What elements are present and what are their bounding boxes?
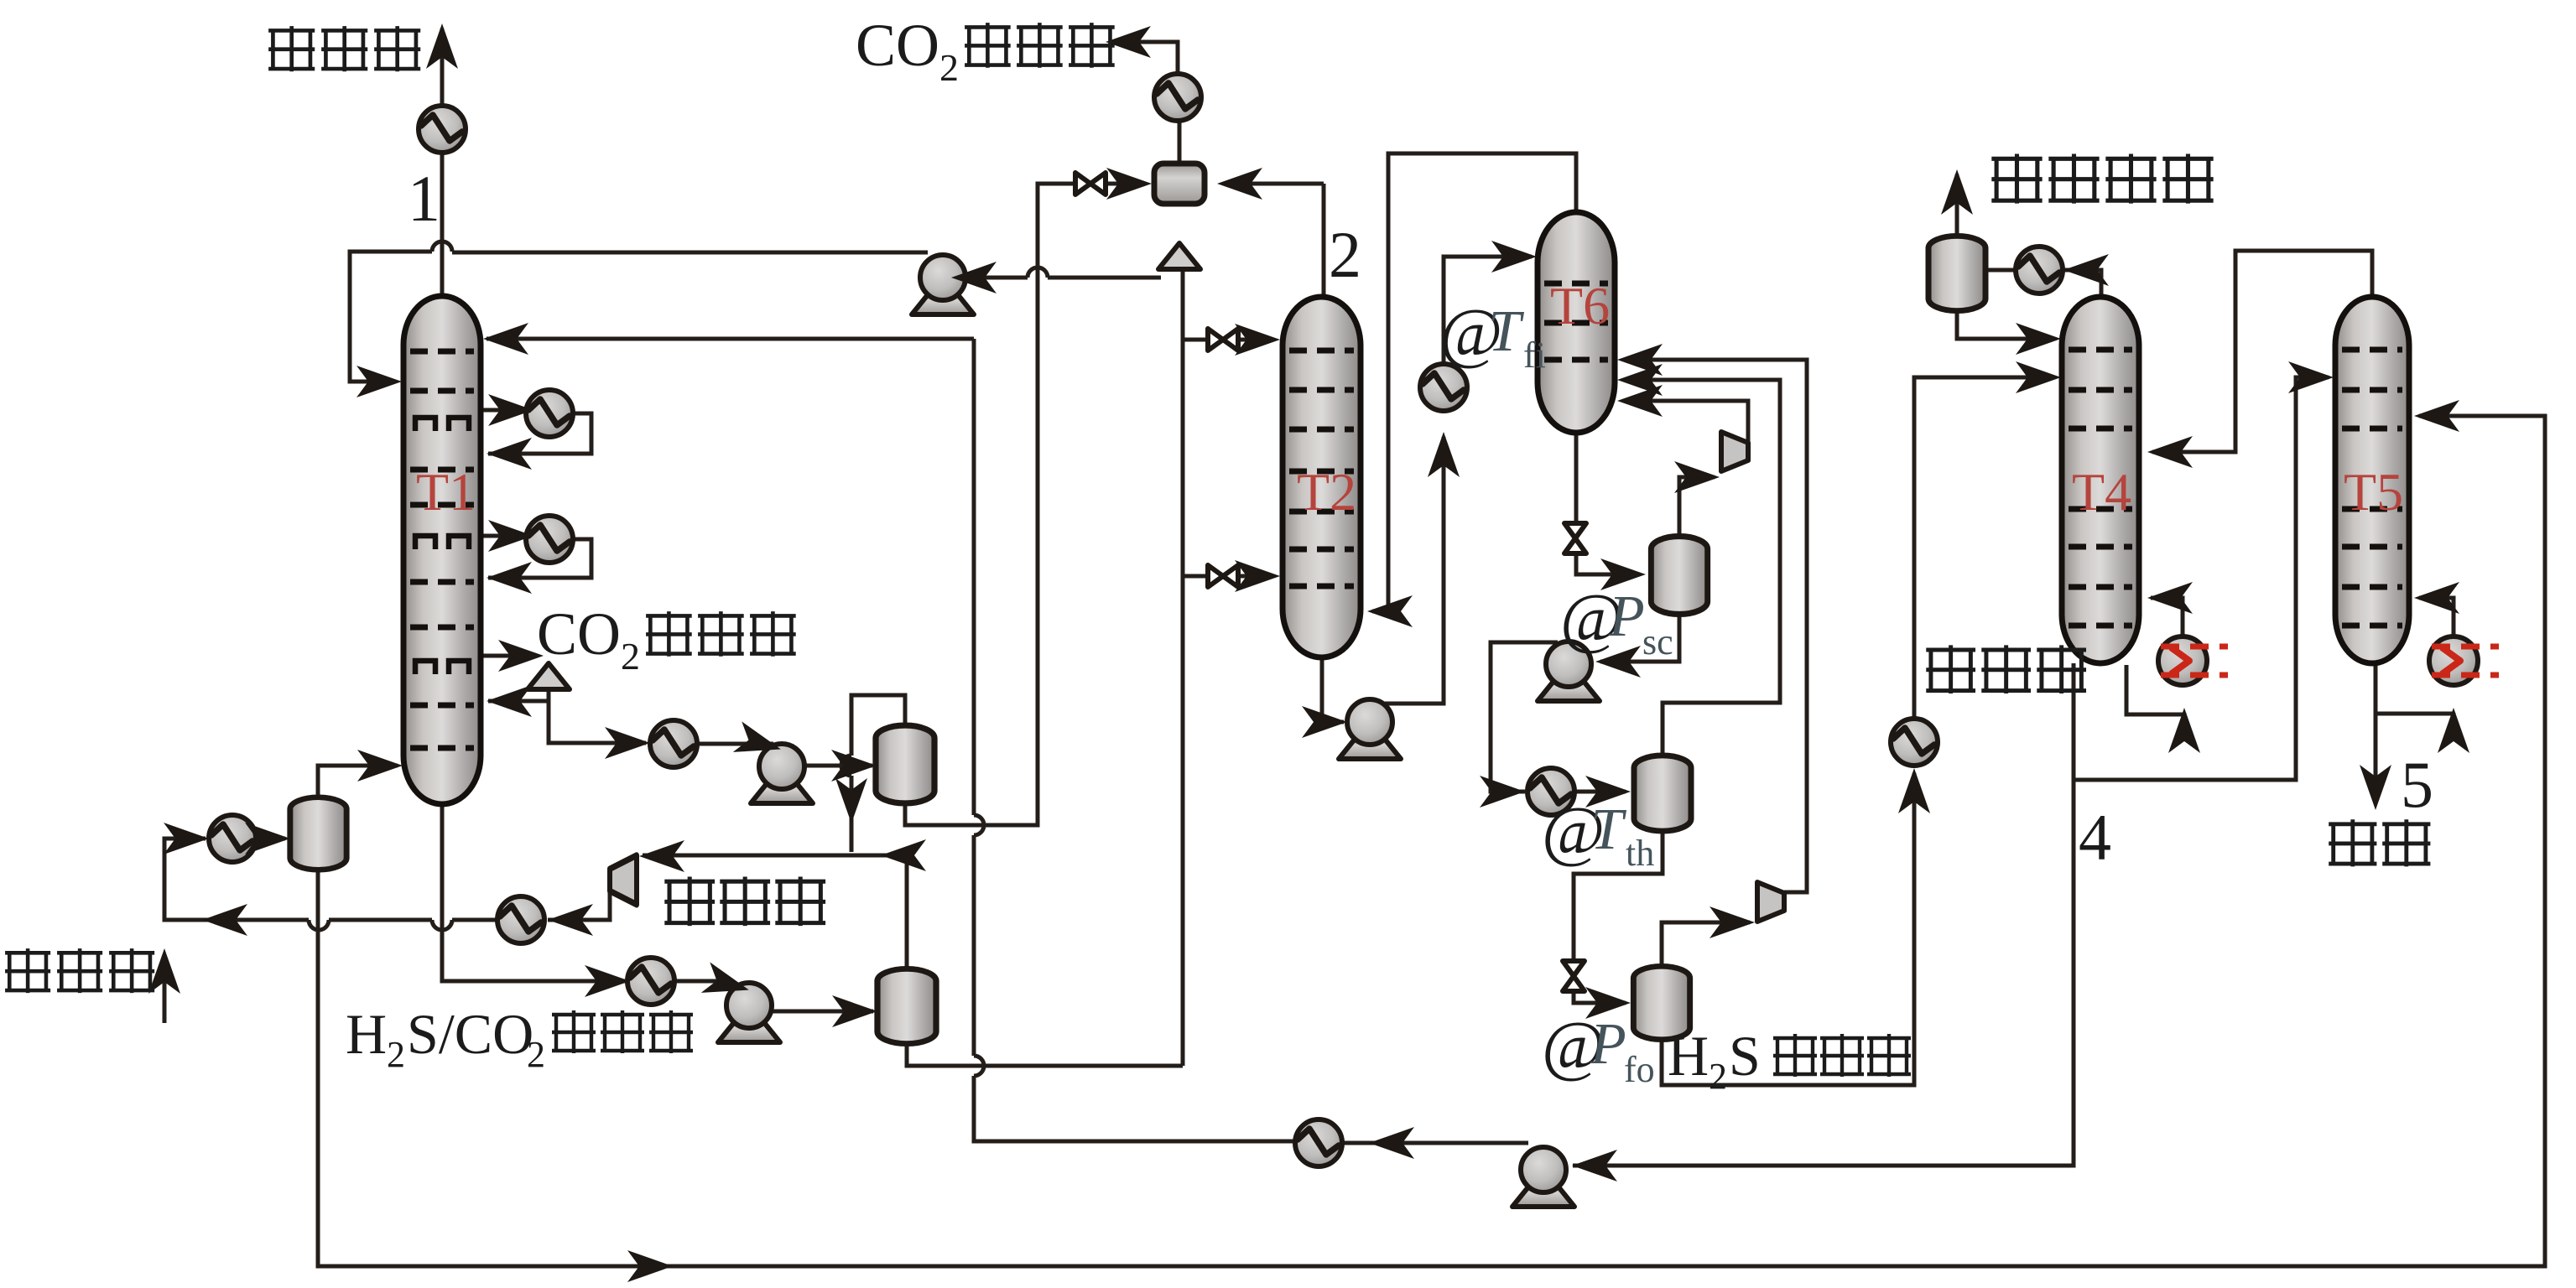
svg-text:T4: T4	[2072, 462, 2131, 522]
wire T1 bottoms to H2S/CO2 HX	[442, 804, 725, 981]
wire T5 overhead to T4 return	[2152, 251, 2372, 452]
column T2	[1283, 297, 1361, 657]
arrow purified gas up	[426, 23, 458, 69]
arrow into T1 left feed	[356, 366, 402, 397]
label Claus gas	[1991, 153, 2213, 203]
wire T4 reboiler loop	[2126, 598, 2184, 714]
reboiler T5 (red)	[2429, 636, 2499, 685]
compressor K3 Pfo vapor	[1757, 882, 1784, 922]
wire T6 overhead to T2 lower return	[1372, 153, 1576, 611]
pump P3	[718, 983, 780, 1042]
arrow down on recycle drop leg	[835, 778, 867, 823]
wire Claus drum assembly	[1957, 174, 2101, 339]
svg-text:P: P	[1608, 584, 1645, 649]
valve V2 T2 upper feed	[1208, 329, 1238, 351]
wire pump P2 discharge loop to T1 left feed	[350, 252, 928, 382]
arrow stream4 into T5	[2288, 361, 2334, 393]
wire drum D2 bottoms riser to T2 feed valves	[907, 270, 1273, 1066]
svg-text:T: T	[1488, 299, 1525, 364]
wire Psc drum bottoms to pump P5	[1600, 615, 1679, 662]
arrow letdown return into T1	[487, 685, 532, 717]
arrow into T6 right bottom	[1617, 385, 1663, 417]
svg-text:4: 4	[2079, 801, 2111, 874]
arrow Claus liquid into T4	[2016, 323, 2061, 355]
arrow bottom header right	[627, 1250, 673, 1282]
wire pump P1 discharge into drum D1	[805, 764, 872, 768]
arrow into pump P4	[1302, 706, 1347, 738]
arrow reboiler return into T5	[2414, 582, 2459, 614]
arrow into compressor K1	[639, 840, 684, 872]
arrow into E12	[2063, 254, 2109, 286]
arrow into Tth drum	[1585, 776, 1631, 808]
svg-text:2: 2	[527, 1034, 545, 1075]
label raw gas	[5, 948, 154, 993]
column T5	[2335, 297, 2409, 663]
label waste water	[2329, 819, 2430, 866]
wire T1 side cooler loop upper	[481, 410, 591, 454]
label CO2 product gas	[856, 12, 1115, 89]
svg-text:2: 2	[1329, 218, 1361, 291]
arrow wash feed into T1 right	[483, 323, 528, 355]
arrow left on recycle header	[881, 839, 926, 871]
label recycle gas	[664, 876, 825, 926]
pump P4 T2 bottoms	[1339, 699, 1401, 759]
label CO2 rich methanol	[537, 600, 796, 678]
heat exchanger E13 bottom interchanger	[1295, 1119, 1342, 1166]
arrow D0 vapor into T1	[357, 750, 403, 782]
pump P6 bottom right	[1512, 1147, 1574, 1207]
wire compressor K3 discharge riser to T6	[1624, 360, 1807, 892]
arrow from T2 into product drum	[1217, 168, 1262, 200]
wire T2 bottoms to pump P4	[1322, 657, 1344, 722]
arrow CO2 product gas	[1106, 26, 1151, 58]
arrow reboiler return into T4	[2147, 582, 2193, 614]
arrow waste water down	[2360, 765, 2391, 810]
valve V3 T2 lower feed	[1208, 565, 1238, 587]
wire pump P3 discharge into drum D2	[773, 1010, 873, 1014]
wire raw gas feed	[163, 956, 167, 1023]
arrow into E8	[585, 965, 630, 997]
arrow into T6 right middle	[1617, 364, 1663, 396]
drum D2 H2S flash drum	[877, 969, 936, 1043]
arrow into pump P5	[1595, 646, 1641, 678]
arrow valve V3 into T2	[1235, 560, 1280, 592]
wire compressor K1 discharge to main return line	[164, 839, 610, 920]
arrow into pump P6	[1572, 1150, 1617, 1182]
wire drum D1 bottoms up to product valve	[905, 184, 1146, 825]
heat exchanger E3 T1 intercooler lower	[526, 516, 573, 563]
label @Tfi	[1439, 294, 1546, 376]
svg-text:H: H	[1668, 1024, 1709, 1088]
wire wash methanol feed into T1 top right	[487, 337, 974, 341]
valve V1 product line	[1075, 173, 1106, 195]
heat exchanger E10 before Tth drum	[1527, 768, 1574, 815]
wire drum D0 bottoms to long bottom header and T5 right feed riser	[318, 416, 2545, 1266]
svg-text:2: 2	[1709, 1056, 1727, 1097]
heat exchanger E12 Claus gas cooler	[2016, 247, 2063, 293]
svg-text:S: S	[1729, 1024, 1761, 1088]
label @Psc	[1560, 579, 1673, 662]
pump P5 Psc bottoms	[1538, 641, 1600, 701]
wire T4 bottoms down to pump P6 suction	[1573, 663, 2074, 1166]
arrow up into E9	[1428, 432, 1460, 477]
column T4	[2062, 297, 2139, 663]
wire T6 bottoms through valve into Psc drum	[1576, 433, 1640, 574]
heat exchanger E11 lean methanol cooler	[1891, 719, 1938, 766]
compressor K2 Psc vapor	[1721, 432, 1748, 471]
svg-text:S/CO: S/CO	[407, 1002, 533, 1066]
valve V4 T6 bottoms letdown	[1564, 523, 1586, 553]
pump P1	[751, 744, 813, 803]
arrow into E10	[1480, 776, 1525, 808]
wire Pfo drum overhead to compressor K3	[1662, 922, 1750, 967]
wire HX to pump P1	[697, 742, 773, 746]
svg-text:T: T	[1590, 797, 1627, 862]
triangle letdown B product	[1158, 243, 1200, 269]
drum D0 feed separator	[290, 797, 346, 870]
pump P2	[912, 255, 974, 314]
drum Pfo flash	[1633, 966, 1689, 1039]
svg-text:5: 5	[2401, 748, 2433, 821]
drum Psc flash	[1651, 537, 1707, 615]
svg-text:2: 2	[387, 1034, 405, 1075]
arrow into drum D0	[245, 823, 290, 854]
svg-text:H: H	[346, 1002, 387, 1066]
arrow into compressor K3	[1710, 906, 1755, 938]
drum D1 CO2 flash drum	[876, 725, 934, 803]
wire T5 reboiler loop and waste water	[2376, 598, 2454, 803]
svg-text:CO: CO	[537, 600, 621, 667]
compressor K1 recycle gas	[610, 855, 637, 905]
arrow into E6	[548, 904, 593, 936]
arrow up into T4 reboiler	[2168, 708, 2200, 753]
arrow riser into T5 right	[2414, 400, 2459, 432]
svg-text:P: P	[1590, 1012, 1626, 1077]
svg-text:th: th	[1626, 833, 1654, 874]
arrow T1 to cooler E2	[488, 394, 533, 426]
arrow CO2 rich outlet	[498, 640, 544, 672]
drum Tth flash	[1634, 756, 1691, 831]
label H2S rich methanol	[1668, 1024, 1911, 1097]
heat exchanger E1 purified gas cooler	[419, 106, 466, 153]
wire drum D1 overhead loop down to recycle-gas header	[643, 695, 907, 969]
heat exchanger E8 H2S/CO2 rich exchanger	[627, 958, 674, 1005]
arrow valve V2 into T2	[1235, 324, 1280, 356]
arrow T5 overhead into T4	[2147, 436, 2193, 468]
wire Tth drum bottoms through valve into Pfo drum	[1574, 831, 1663, 1003]
arrow valve V1 into product drum	[1106, 168, 1152, 200]
arrow up into T5 reboiler	[2438, 708, 2469, 753]
arrow main return left	[202, 904, 247, 936]
arrow T1 to cooler E3	[488, 520, 533, 552]
wire Psc drum overhead to compressor K2	[1679, 477, 1715, 537]
wire CO2-rich methanol outlet and letdown	[481, 656, 646, 743]
svg-text:CO: CO	[856, 12, 939, 79]
arrow into compressor K2	[1674, 461, 1720, 493]
svg-text:2: 2	[939, 46, 959, 89]
label @Tth	[1542, 792, 1654, 874]
arrow up into E11	[1898, 768, 1930, 813]
svg-text:sc: sc	[1642, 621, 1673, 662]
arrow E3 return into T1	[487, 562, 532, 594]
drum Claus gas separator	[1928, 236, 1985, 310]
arrow into E13	[1369, 1127, 1414, 1159]
heat exchanger E6 recycle line exchanger	[497, 896, 544, 943]
wire Tth drum overhead riser to T6	[1624, 380, 1780, 756]
svg-text:2: 2	[621, 635, 640, 678]
label H2S/CO2 rich methanol	[346, 1002, 693, 1075]
drum product accumulator	[1154, 164, 1205, 204]
arrow return into T2 right	[1367, 595, 1413, 627]
arrow into E7	[164, 823, 209, 854]
wire long riser x1161 with hops, to bottom HX line	[974, 339, 1528, 1143]
svg-text:T2: T2	[1297, 462, 1356, 522]
reboiler T4 (red)	[2158, 636, 2228, 685]
heat exchanger E4 CO2 product cooler	[1154, 74, 1201, 121]
arrow into Psc drum	[1600, 558, 1646, 590]
heat exchanger E2 T1 intercooler upper	[526, 390, 573, 437]
column T6	[1538, 212, 1615, 433]
wire drum D0 overhead into T1 bottom	[318, 766, 398, 797]
wire letdown triangle to pump P2 suction with hop	[956, 267, 1161, 278]
heat exchanger E9 Tfi exchanger	[1420, 364, 1467, 411]
wire CO2 product line	[1110, 42, 1179, 164]
valve V5 Tth bottoms letdown	[1563, 961, 1585, 991]
triangle letdown A at T1	[528, 663, 570, 689]
arrow into Pfo drum	[1585, 987, 1631, 1019]
wire compressor K2 discharge to T6	[1624, 401, 1748, 442]
svg-text:fi: fi	[1523, 335, 1546, 376]
wire hop at x527 on y300	[432, 241, 452, 252]
wire T1 side cooler loop lower	[481, 536, 591, 578]
wire product drum right link and T2 overhead	[1223, 184, 1324, 297]
column T1	[403, 296, 481, 804]
arrow E2 return into T1	[487, 438, 532, 470]
arrow lean methanol into T4	[2016, 361, 2061, 393]
arrow into pump P3	[701, 962, 753, 1005]
heat exchanger E7 feed chiller	[209, 815, 256, 862]
arrow raw gas up	[148, 948, 180, 994]
svg-text:T6: T6	[1550, 276, 1610, 335]
arrow Claus gas up	[1941, 169, 1973, 215]
label lean methanol	[1926, 645, 2086, 693]
svg-text:1: 1	[408, 162, 440, 235]
svg-text:T5: T5	[2344, 462, 2403, 522]
label @Pfo	[1542, 1007, 1655, 1090]
arrow into pump P2	[951, 262, 997, 293]
heat exchanger E5 letdown cooler	[650, 720, 697, 767]
wire hops on main return line	[309, 920, 452, 930]
arrow into drum D2	[832, 995, 877, 1027]
wire pump P4 discharge through HX up to T6	[1377, 257, 1532, 704]
svg-text:fo: fo	[1624, 1049, 1655, 1090]
arrow into T6 right top	[1617, 344, 1663, 376]
arrow into T6 left	[1491, 241, 1537, 273]
arrow into drum D1	[831, 750, 877, 782]
wire stream 4 loop to T5 feed	[2074, 377, 2329, 780]
label jinghuaqi (purified gas)	[268, 26, 420, 71]
wire Pfo bottoms lean methanol riser to T4	[1662, 377, 2055, 1085]
wire purified-gas outlet above T1	[440, 29, 445, 296]
wire pump P5 discharge through HX into Tth drum	[1491, 642, 1626, 792]
svg-text:T1: T1	[416, 462, 476, 522]
arrow into pump P1	[733, 721, 785, 764]
arrow into E5	[605, 727, 650, 759]
